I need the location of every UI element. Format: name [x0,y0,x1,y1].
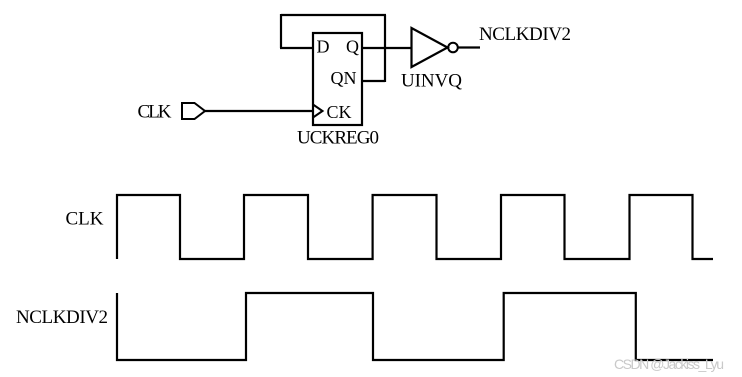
svg-text:CK: CK [327,102,352,122]
input port CLK symbol [182,103,205,119]
svg-text:QN: QN [331,68,357,88]
waveform CLK [117,195,713,259]
svg-text:CLK: CLK [138,102,172,123]
wire CLK to CK pin [205,110,313,112]
svg-text:UINVQ: UINVQ [401,71,462,92]
flip-flop U1 UCKREG0 body [313,33,362,125]
wire QN output [362,80,385,82]
svg-text:D: D [317,37,330,57]
wire inverter output [458,46,480,48]
svg-text:UCKREG0: UCKREG0 [297,128,379,149]
svg-text:CSDN @Jackiss_Lyu: CSDN @Jackiss_Lyu [614,356,724,372]
svg-text:Q: Q [346,37,359,57]
clock edge marker on CK pin [313,105,323,118]
inverter output bubble [448,43,458,53]
svg-text:NCLKDIV2: NCLKDIV2 [479,24,571,45]
wire D input [280,47,313,49]
wire feedback top horizontal [281,14,386,16]
waveform NCLKDIV2 [117,293,713,360]
svg-text:NCLKDIV2: NCLKDIV2 [16,307,108,328]
wire feedback right vertical [384,15,386,82]
svg-text:CLK: CLK [66,209,104,230]
inverter U2 UINVQ triangle [412,28,448,67]
wire feedback left vertical [280,14,282,48]
wire Q output to inverter [362,47,412,49]
